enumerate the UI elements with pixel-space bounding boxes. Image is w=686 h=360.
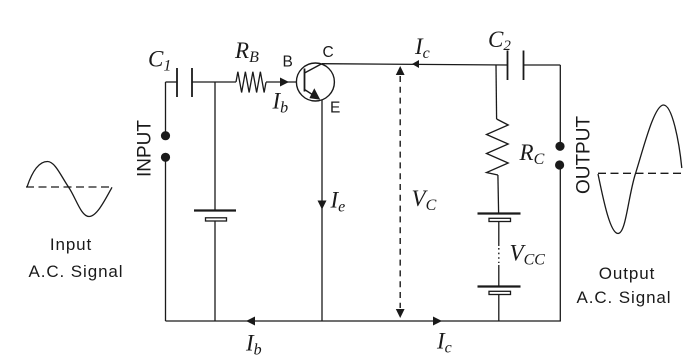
resistor RB [236, 72, 266, 93]
node: output terminal lower dot [555, 160, 564, 169]
transistor Q1 base bar [304, 69, 306, 92]
wire: collector top rail to C2 [322, 64, 508, 65]
output sine wave [598, 105, 682, 234]
node: input terminal upper dot [161, 131, 170, 140]
wire: bottom rail [166, 320, 561, 322]
wire: VCC to bottom rail [498, 295, 500, 321]
wire: left vertical upper (input top lead) [165, 82, 167, 132]
battery B1 (input bias cell) [194, 211, 236, 222]
svg-text:INPUT: INPUT [135, 120, 156, 177]
svg-text:B: B [283, 54, 293, 71]
wire: emitter vertical down [321, 100, 323, 321]
wire: output right vertical upper [559, 65, 561, 142]
wire: between VCC cells (lower) [498, 265, 500, 286]
wire: left vertical lower [165, 161, 167, 321]
capacitor C1 [177, 68, 192, 97]
wire: battery B1 to bottom rail [214, 222, 216, 322]
arrow Ic on top rail (pointing left) [412, 60, 419, 68]
wire: between VCC cells (upper) [498, 222, 500, 246]
svg-text:A.C. Signal: A.C. Signal [577, 288, 672, 307]
output sine dashed baseline [598, 172, 682, 174]
svg-text:Output: Output [599, 264, 655, 283]
battery VCC cell 2 [478, 287, 521, 295]
arrow Ib into base [280, 78, 289, 87]
node: input terminal lower dot [161, 153, 170, 162]
input sine wave [27, 162, 112, 217]
wire: T junction down to RC [495, 65, 498, 119]
wire: RC to VCC battery [497, 175, 500, 213]
arrow Ic on bottom rail (pointing right) [433, 317, 442, 326]
transistor Q1 emitter stroke with arrow [305, 88, 321, 100]
capacitor C2 [508, 51, 524, 81]
wire: output right vertical lower [559, 169, 561, 321]
wire: junction down to battery B1 [214, 82, 216, 210]
wire: RB to transistor base [266, 81, 297, 83]
svg-text:Input: Input [50, 235, 92, 254]
dashed measure line VC with arrows both ends [396, 66, 405, 318]
battery VCC cell 1 [478, 214, 521, 222]
wire: C1 right plate to resistor RB [192, 81, 236, 83]
wire: C2 right plate to output corner [524, 64, 561, 66]
arrow Ib on bottom rail (pointing left) [246, 317, 255, 326]
transistor Q1 collector stroke [305, 64, 322, 73]
svg-text:OUTPUT: OUTPUT [574, 116, 595, 195]
dotted continuation between cells [498, 248, 500, 263]
svg-text:E: E [330, 100, 340, 117]
input sine dashed baseline [26, 186, 113, 188]
resistor RC [487, 119, 509, 175]
node: output terminal upper dot [555, 142, 564, 151]
transistor Q1 circle [296, 63, 334, 101]
svg-text:A.C. Signal: A.C. Signal [29, 262, 124, 281]
wire: lead into C1 left plate [166, 81, 178, 83]
arrow Ie (down) [318, 201, 327, 210]
svg-text:C: C [323, 44, 334, 61]
